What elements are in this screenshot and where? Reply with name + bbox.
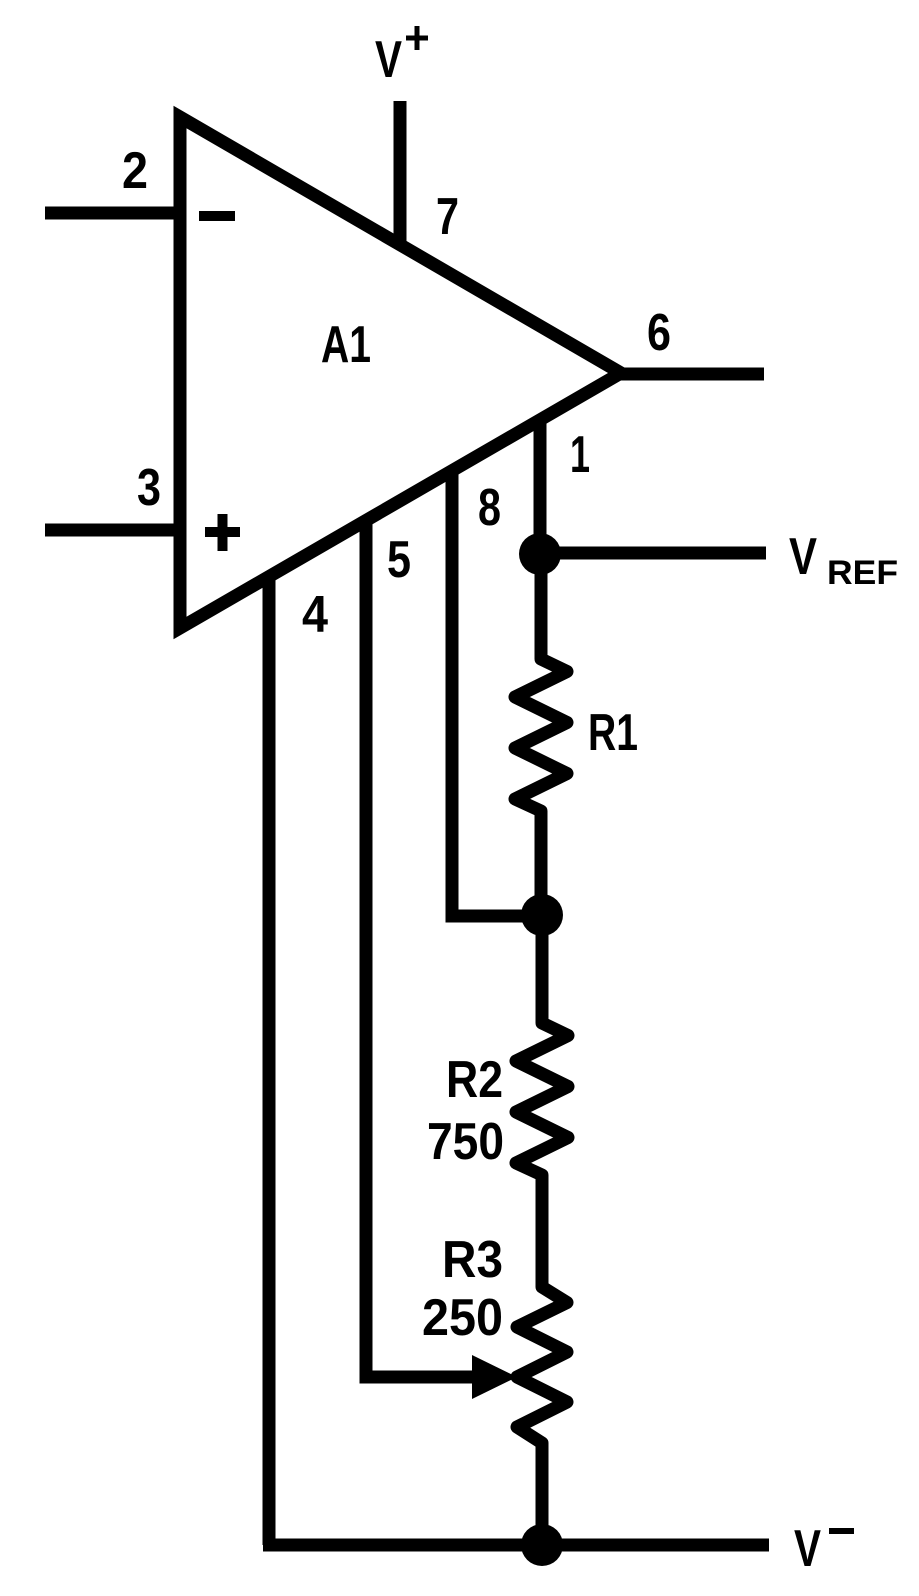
svg-text:3: 3 bbox=[137, 459, 161, 517]
wire VREF stub bbox=[540, 547, 766, 560]
wire pin 7 V+ supply bbox=[394, 101, 407, 246]
op-amp plus input sign bbox=[205, 514, 240, 551]
svg-text:5: 5 bbox=[387, 531, 411, 589]
svg-text:R3: R3 bbox=[442, 1231, 503, 1289]
svg-text:R1: R1 bbox=[588, 704, 638, 762]
svg-text:A1: A1 bbox=[321, 316, 371, 374]
svg-text:6: 6 bbox=[647, 304, 671, 362]
svg-text:250: 250 bbox=[422, 1289, 503, 1347]
wire V- rail bbox=[263, 1539, 769, 1552]
svg-text:V: V bbox=[375, 31, 402, 89]
wire pin 5 wiper bbox=[366, 520, 482, 1377]
svg-text:2: 2 bbox=[122, 142, 148, 200]
wire node B to R2 bbox=[536, 915, 549, 1023]
V+ plus superscript bbox=[406, 26, 428, 50]
wire R3 to V- node bbox=[536, 1443, 549, 1545]
junction node B (pin 8 / R1 / R2) bbox=[521, 894, 563, 936]
resistor R2 bbox=[516, 1012, 568, 1186]
svg-text:750: 750 bbox=[427, 1113, 504, 1171]
junction node VREF bbox=[519, 533, 561, 575]
wiper arrowhead into R3 bbox=[472, 1355, 517, 1399]
svg-text:REF: REF bbox=[827, 554, 898, 592]
wire R2 to R3 bbox=[536, 1175, 549, 1287]
svg-text:V: V bbox=[794, 1520, 821, 1578]
wire VREF node to R1 bbox=[535, 554, 548, 659]
resistor R1 bbox=[515, 648, 567, 822]
wire pin 3 input bbox=[45, 524, 180, 537]
svg-text:7: 7 bbox=[436, 188, 459, 246]
wire pin 2 input bbox=[45, 207, 180, 220]
wire pin 4 bbox=[263, 576, 276, 1545]
svg-text:1: 1 bbox=[570, 426, 590, 484]
svg-text:4: 4 bbox=[302, 586, 328, 644]
svg-text:8: 8 bbox=[478, 479, 501, 537]
junction node V- bbox=[521, 1524, 563, 1566]
V- minus superscript bbox=[829, 1528, 854, 1534]
resistor R3 potentiometer bbox=[517, 1276, 567, 1454]
op-amp A1 triangle body bbox=[180, 117, 621, 628]
wire pin 6 output bbox=[621, 368, 764, 381]
svg-text:R2: R2 bbox=[446, 1051, 503, 1109]
wire R1 to node B bbox=[535, 811, 548, 915]
wire pin 1 to VREF node bbox=[534, 419, 547, 554]
wire pin 8 bbox=[452, 470, 542, 916]
svg-text:V: V bbox=[789, 528, 817, 586]
op-amp minus input sign bbox=[199, 211, 235, 221]
